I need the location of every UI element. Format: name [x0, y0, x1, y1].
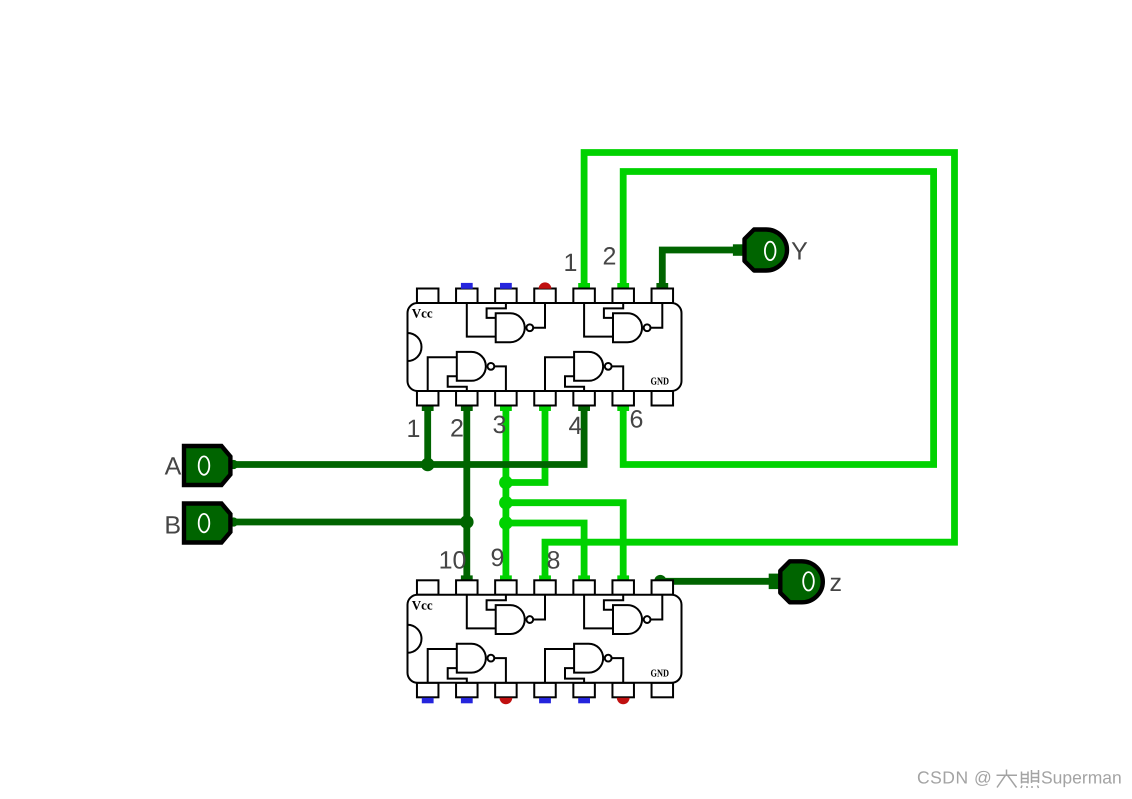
svg-text:B: B: [164, 511, 181, 539]
svg-text:9: 9: [491, 544, 505, 572]
svg-text:z: z: [830, 569, 843, 597]
svg-text:1: 1: [564, 249, 578, 277]
svg-text:2: 2: [603, 243, 617, 271]
svg-text:CSDN @: CSDN @: [917, 768, 992, 788]
svg-text:A: A: [165, 453, 182, 481]
svg-text:6: 6: [630, 406, 644, 434]
svg-text:4: 4: [569, 412, 583, 440]
svg-text:Superman: Superman: [1041, 768, 1122, 788]
svg-text:2: 2: [450, 415, 464, 443]
svg-text:1: 1: [407, 415, 421, 443]
svg-text:10: 10: [439, 547, 467, 575]
svg-text:3: 3: [493, 411, 507, 439]
svg-text:Y: Y: [791, 238, 808, 266]
svg-text:8: 8: [547, 547, 561, 575]
